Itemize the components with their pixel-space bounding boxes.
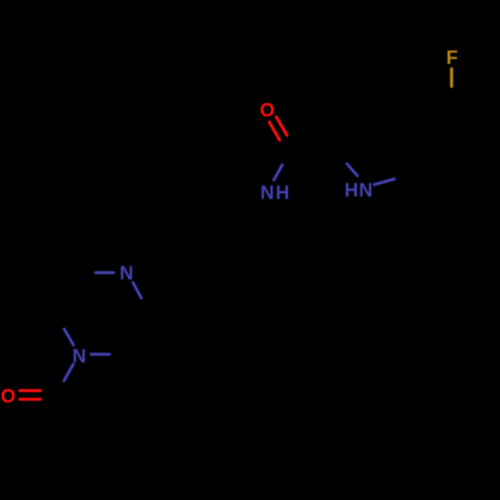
bond N-C(=O) acetyl (half-bond down-left) bbox=[64, 364, 73, 380]
svg-text:N: N bbox=[120, 264, 134, 285]
bond O=C line 2 (upper-right parallel) bbox=[276, 117, 287, 135]
bond N-C left (horizontal half-bond) bbox=[96, 271, 114, 274]
svg-text:O: O bbox=[1, 387, 16, 408]
svg-text:H: H bbox=[345, 181, 359, 202]
svg-text:N: N bbox=[359, 181, 373, 202]
svg-text:H: H bbox=[276, 183, 290, 204]
bond N-C down-right (half-bond) bbox=[133, 283, 141, 299]
svg-text:N: N bbox=[260, 183, 274, 204]
bond O=C acetyl line 1 (upper parallel) bbox=[20, 389, 41, 392]
bond O=C acetyl line 2 (lower parallel) bbox=[20, 398, 41, 401]
bond N1-C7a indole (half-bond up-right) bbox=[374, 179, 394, 185]
bond N-C right (horizontal half-bond) bbox=[91, 353, 110, 356]
bond N-C(=O) (half-bond up-right from amide NH) bbox=[274, 165, 283, 180]
bond N1-C2 indole (half-bond up-left) bbox=[347, 164, 357, 176]
svg-text:F: F bbox=[446, 48, 458, 69]
svg-text:O: O bbox=[260, 101, 275, 122]
bond O=C line 1 (lower-left parallel) bbox=[269, 122, 279, 140]
bond F-C4 (half-bond below F) bbox=[450, 69, 453, 87]
bond N-C up-left (half-bond) bbox=[64, 329, 73, 345]
